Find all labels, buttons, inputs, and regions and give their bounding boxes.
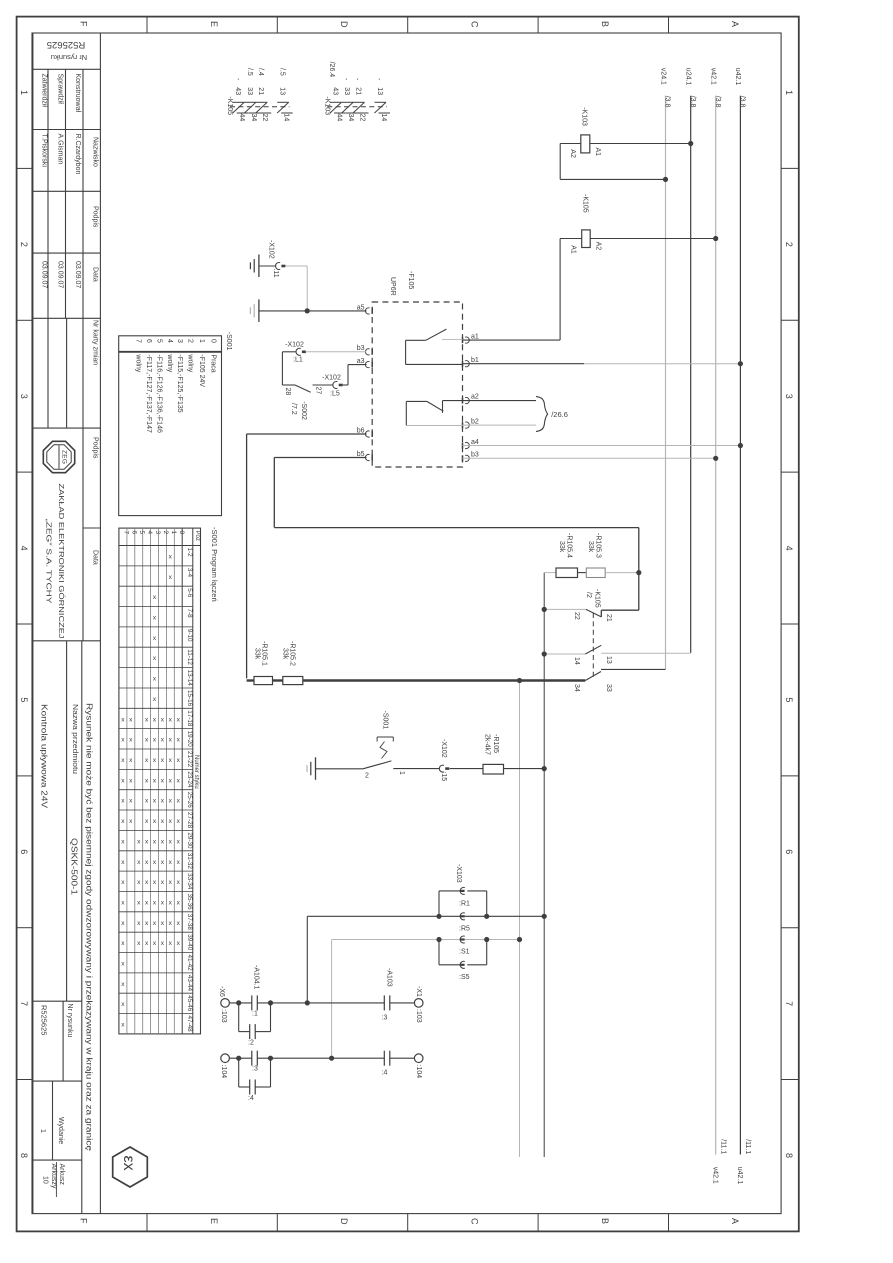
- svg-text:37-38: 37-38: [186, 914, 193, 931]
- svg-text:0: 0: [178, 531, 185, 535]
- svg-text:-X6: -X6: [218, 986, 225, 997]
- svg-text:-F116,-F126,-F136,-F146: -F116,-F126,-F136,-F146: [155, 354, 162, 433]
- svg-text:C: C: [470, 1218, 480, 1225]
- F105 internal contact a1-b1: [406, 329, 463, 364]
- capacitor A104.1:2 loop: [239, 1003, 271, 1047]
- svg-text::1: :1: [252, 1011, 258, 1018]
- svg-text:x: x: [145, 838, 149, 845]
- svg-text:-K105: -K105: [594, 589, 601, 608]
- svg-text:11-12: 11-12: [186, 649, 193, 665]
- svg-text:x: x: [169, 900, 173, 907]
- svg-text:x: x: [129, 798, 133, 805]
- svg-text:34: 34: [573, 684, 580, 692]
- svg-text:x: x: [137, 838, 141, 845]
- svg-text:B: B: [600, 21, 610, 27]
- svg-text:x: x: [169, 859, 173, 866]
- title block section Nr karty zmian: [33, 318, 101, 428]
- svg-text:43: 43: [234, 87, 241, 95]
- contact K105 13-14: [544, 645, 691, 665]
- svg-text:13-14: 13-14: [186, 670, 193, 687]
- svg-text:x: x: [121, 757, 125, 764]
- svg-text:F: F: [78, 1218, 88, 1224]
- svg-text:R525625: R525625: [47, 39, 86, 50]
- svg-text:27-28: 27-28: [186, 812, 193, 829]
- svg-text:F: F: [78, 21, 88, 27]
- connector X102 pin L5: [322, 375, 343, 398]
- svg-text:x: x: [153, 757, 157, 764]
- svg-text:3: 3: [176, 339, 183, 343]
- F105 terminal b3 right: [463, 452, 479, 462]
- svg-text:x: x: [145, 777, 149, 784]
- svg-text:4: 4: [166, 339, 173, 343]
- svg-text:x: x: [153, 920, 157, 927]
- svg-text:-S001: -S001: [225, 332, 232, 351]
- svg-text:-R105: -R105: [492, 734, 499, 753]
- selector S001 position list table: [119, 332, 232, 516]
- svg-text:x: x: [153, 655, 157, 662]
- svg-text:v42.1: v42.1: [711, 1167, 718, 1184]
- svg-text:A2: A2: [569, 149, 576, 158]
- wire row S: [332, 939, 520, 941]
- svg-text:1: 1: [398, 771, 405, 775]
- wire row 103: [229, 1002, 414, 1004]
- svg-text::3: :3: [252, 1066, 258, 1073]
- resistor R105.1 33k on heavy rail: [247, 641, 273, 685]
- svg-text:-X102: -X102: [285, 342, 304, 349]
- svg-text::R5: :R5: [459, 926, 470, 933]
- title block row role labels: [33, 69, 101, 318]
- svg-text:1: 1: [784, 90, 794, 95]
- svg-text:A1: A1: [570, 245, 577, 254]
- switch S001 manual actuator: [377, 737, 393, 759]
- frame grid numbers right: [784, 90, 794, 1158]
- svg-text:x: x: [169, 879, 173, 886]
- svg-text:x: x: [145, 940, 149, 947]
- svg-text:A: A: [730, 1218, 740, 1224]
- svg-text::2: :2: [248, 1040, 254, 1047]
- svg-text:x: x: [121, 737, 125, 744]
- svg-text:3: 3: [19, 394, 29, 399]
- svg-text:/3.8: /3.8: [739, 96, 746, 108]
- svg-text:x: x: [153, 838, 157, 845]
- svg-text:2: 2: [162, 531, 169, 535]
- wire X102:L5 to F105 a3: [343, 365, 367, 385]
- svg-text:Sprawdził: Sprawdził: [57, 74, 64, 105]
- svg-text:x: x: [121, 818, 125, 825]
- svg-text:x: x: [177, 838, 181, 845]
- svg-text:1: 1: [170, 531, 177, 535]
- svg-text:-R105.3: -R105.3: [594, 533, 601, 558]
- svg-text:5: 5: [138, 531, 145, 535]
- wire X102:L1 to F105 b3: [306, 351, 367, 353]
- F105 internal contact a2-b2 (NC): [406, 401, 462, 426]
- svg-text:x: x: [121, 838, 125, 845]
- svg-text:x: x: [153, 737, 157, 744]
- svg-text:x: x: [169, 798, 173, 805]
- svg-text:6: 6: [784, 849, 794, 854]
- junction rail / signal line B: [517, 678, 522, 683]
- title block cell Nr rysunku R525625 bottom: [33, 1001, 82, 1081]
- svg-text:x: x: [161, 940, 165, 947]
- svg-text:D: D: [339, 21, 349, 28]
- connector X102 pin 11: [259, 240, 286, 278]
- svg-text:D: D: [339, 1218, 349, 1225]
- frame grid numbers left: [19, 90, 29, 1158]
- svg-text:35-36: 35-36: [186, 894, 193, 911]
- svg-text:3: 3: [784, 394, 794, 399]
- svg-text:x: x: [161, 879, 165, 886]
- frame grid letters bottom: [78, 1218, 740, 1225]
- svg-text:x: x: [177, 777, 181, 784]
- switch S001 contact 1-2: [316, 711, 440, 780]
- svg-text:21: 21: [354, 87, 361, 95]
- frame grid row dividers right band: [781, 168, 799, 1079]
- capacitor A104.1:3: [252, 1051, 258, 1073]
- svg-text:2: 2: [19, 242, 29, 247]
- svg-text:4: 4: [19, 546, 29, 551]
- svg-text:x: x: [137, 900, 141, 907]
- svg-text:7: 7: [19, 1001, 29, 1006]
- terminal circle X6:104: [220, 1054, 229, 1078]
- wire F105 a4 to bus u42.1: [463, 445, 741, 447]
- svg-text:Zatwierdził: Zatwierdził: [40, 74, 47, 108]
- device label A104.1: [252, 965, 259, 990]
- svg-text:x: x: [177, 900, 181, 907]
- svg-text:-F105 24V: -F105 24V: [198, 354, 205, 387]
- connector X103 pin S5: [459, 961, 470, 981]
- svg-text:-F117,-F127,-F137,-F147: -F117,-F127,-F137,-F147: [145, 354, 152, 433]
- svg-text:-K105: -K105: [582, 194, 589, 213]
- frame grid column dividers bottom band: [147, 1214, 669, 1232]
- wire X102:11 to a5 net: [285, 266, 307, 311]
- svg-text:x: x: [137, 859, 141, 866]
- svg-text:x: x: [153, 900, 157, 907]
- resistor R105.3 33k: [578, 533, 639, 578]
- svg-text:3: 3: [154, 531, 161, 535]
- title block cell Wydanie 1: [33, 1081, 82, 1160]
- svg-text:/11.1: /11.1: [719, 1139, 726, 1154]
- junction 14 on signal line A: [542, 651, 547, 656]
- svg-text:x: x: [145, 818, 149, 825]
- connector X103 pin R1 with jumper: [439, 887, 487, 916]
- svg-text:28: 28: [284, 388, 291, 396]
- svg-text:x: x: [169, 920, 173, 927]
- connector X103 pin R5: [459, 913, 470, 933]
- svg-text:E: E: [209, 1218, 219, 1224]
- svg-text:x: x: [169, 737, 173, 744]
- Ex certification hexagon logo: [113, 1147, 148, 1187]
- junctions row S: [436, 937, 522, 942]
- svg-text:A: A: [730, 21, 740, 27]
- svg-text::104: :104: [415, 1065, 422, 1079]
- junction K105 A2 on v42.1: [713, 236, 718, 241]
- bus v24.1 labels top: [659, 68, 670, 108]
- svg-text:x: x: [145, 798, 149, 805]
- svg-text::11: :11: [272, 268, 279, 277]
- bus u24.1 labels top: [685, 68, 696, 108]
- svg-text:25-26: 25-26: [186, 792, 193, 809]
- svg-text:34: 34: [250, 114, 257, 122]
- wire F105 b3 to bus v42.1: [463, 457, 716, 459]
- F105 terminal a3: [357, 358, 372, 368]
- svg-text:x: x: [121, 859, 125, 866]
- wire F105 b6 to R105.1 rail: [247, 434, 367, 678]
- svg-text:x: x: [145, 757, 149, 764]
- svg-text::R1: :R1: [459, 901, 470, 908]
- svg-text:-K103: -K103: [323, 96, 330, 115]
- title block row names / Nazwisko: [33, 134, 101, 192]
- svg-text::L5: :L5: [330, 391, 340, 398]
- svg-text:B: B: [600, 1218, 610, 1224]
- svg-text:x: x: [153, 940, 157, 947]
- svg-text:33-34: 33-34: [186, 873, 193, 890]
- connector X102 pin L1: [285, 342, 306, 364]
- svg-text:x: x: [153, 615, 157, 622]
- svg-text:03.09.07: 03.09.07: [40, 261, 47, 288]
- svg-text:6: 6: [130, 531, 137, 535]
- svg-text:22: 22: [573, 612, 580, 620]
- junction a4 on u42.1: [738, 443, 743, 448]
- svg-text:x: x: [161, 716, 165, 723]
- svg-text:/.4: /.4: [257, 68, 264, 76]
- capacitor A104.1:1: [252, 995, 258, 1017]
- F105 terminal b6: [357, 427, 372, 437]
- svg-text:wolny: wolny: [135, 353, 142, 372]
- junction b3 on v42.1: [713, 456, 718, 461]
- svg-text:x: x: [153, 879, 157, 886]
- svg-text:/11.1: /11.1: [744, 1139, 751, 1154]
- svg-text:QSKK-500-1: QSKK-500-1: [70, 838, 79, 895]
- svg-text:Rysunek nie może być bez pisem: Rysunek nie może być bez pisemnej zgody …: [85, 703, 94, 1152]
- svg-text:-X102: -X102: [322, 375, 341, 382]
- svg-text:x: x: [177, 879, 181, 886]
- svg-text:x: x: [153, 635, 157, 642]
- svg-text:45-46: 45-46: [186, 995, 193, 1012]
- svg-text:-A104.1: -A104.1: [252, 965, 259, 990]
- svg-text:5: 5: [19, 697, 29, 702]
- svg-text:33k: 33k: [558, 541, 565, 553]
- svg-text:x: x: [161, 757, 165, 764]
- svg-text:Nr karty zmian: Nr karty zmian: [92, 320, 99, 365]
- svg-text:x: x: [129, 757, 133, 764]
- svg-text:x: x: [121, 940, 125, 947]
- svg-text:a1: a1: [471, 334, 479, 341]
- F105 terminal a1: [463, 334, 479, 344]
- junction K103 A2 on v24.1: [663, 177, 668, 182]
- svg-text:A2: A2: [595, 242, 602, 251]
- svg-text:ZEG: ZEG: [61, 450, 68, 464]
- frame grid letters top: [78, 21, 740, 28]
- svg-text:x: x: [121, 900, 125, 907]
- svg-text:33: 33: [605, 684, 612, 692]
- F105 terminal a5: [357, 304, 372, 314]
- capacitor A103:4: [382, 1051, 390, 1077]
- svg-text:R525625: R525625: [40, 1005, 49, 1035]
- svg-text:x: x: [169, 940, 173, 947]
- F105 terminal a2: [463, 393, 479, 403]
- svg-text:2: 2: [365, 773, 369, 780]
- ground symbol at S001: [307, 757, 316, 780]
- svg-text:x: x: [161, 798, 165, 805]
- junctions row 103: [236, 1000, 310, 1005]
- svg-text:x: x: [161, 777, 165, 784]
- wire row R down to terminal row 103: [306, 916, 308, 1003]
- resistor R105.4 33k: [544, 533, 577, 578]
- svg-text:x: x: [177, 716, 181, 723]
- svg-text:7: 7: [135, 339, 142, 343]
- svg-text:/3.8: /3.8: [689, 96, 696, 108]
- svg-text:3-4: 3-4: [186, 568, 193, 578]
- svg-text:Numer styku: Numer styku: [193, 755, 199, 789]
- contact K105 21-22 (/2): [544, 589, 612, 622]
- svg-text:31-32: 31-32: [186, 853, 193, 870]
- title block outline: [33, 33, 101, 1214]
- svg-text:wolny: wolny: [187, 353, 194, 372]
- sheet frame inner border: [32, 33, 781, 1214]
- svg-text:1-2: 1-2: [186, 548, 193, 558]
- svg-text:b1: b1: [471, 357, 479, 364]
- svg-text:/.5: /.5: [279, 68, 286, 76]
- junctions row 104: [236, 1056, 334, 1061]
- F105 terminal b2: [463, 419, 479, 429]
- svg-text:/7.2: /7.2: [290, 403, 297, 415]
- svg-text:x: x: [121, 920, 125, 927]
- svg-text:x: x: [121, 1001, 125, 1008]
- svg-text:A.Gisman: A.Gisman: [57, 134, 64, 165]
- svg-text:x: x: [153, 696, 157, 703]
- svg-text::S5: :S5: [459, 974, 470, 981]
- svg-text:x: x: [153, 716, 157, 723]
- svg-text:Poz: Poz: [194, 531, 200, 541]
- logo ZEG octagon: [43, 441, 74, 472]
- wire ground to F105 a5: [259, 310, 367, 312]
- F105 terminal b1: [463, 357, 479, 367]
- wire F105 b2 to sheet 26.6: [463, 424, 537, 426]
- svg-text:x: x: [169, 574, 173, 581]
- svg-text:x: x: [161, 859, 165, 866]
- svg-text:a4: a4: [471, 439, 479, 446]
- title block row Podpis: [33, 206, 101, 253]
- heavy rail wire to contact 34: [303, 679, 586, 681]
- svg-text:x: x: [121, 798, 125, 805]
- bus v42.1 labels top: [710, 68, 721, 108]
- F105 terminal b3 left: [357, 345, 372, 355]
- wire F105 a2 to sheet 26.6: [463, 400, 537, 402]
- junction K103 A1 on u24.1: [688, 141, 693, 146]
- svg-text:x: x: [129, 818, 133, 825]
- svg-text:x: x: [121, 1022, 125, 1029]
- svg-text:39-40: 39-40: [186, 934, 193, 951]
- wire row S down to terminal row 104: [331, 940, 333, 1059]
- selector S001 program table: [119, 527, 219, 1034]
- ground symbol at a5: [250, 299, 259, 322]
- svg-text:x: x: [161, 900, 165, 907]
- F105 terminal a4: [463, 439, 479, 449]
- svg-text:29-30: 29-30: [186, 832, 193, 849]
- svg-text:b3: b3: [357, 345, 365, 352]
- svg-text:-R105.4: -R105.4: [565, 533, 572, 558]
- svg-text:x: x: [129, 737, 133, 744]
- svg-text:33k: 33k: [254, 648, 261, 660]
- svg-text:x: x: [145, 920, 149, 927]
- svg-text:u42.1: u42.1: [736, 1167, 743, 1185]
- svg-text:1: 1: [19, 90, 29, 95]
- svg-text:21-22: 21-22: [186, 751, 193, 768]
- device F105 UP6R dashed outline: [372, 271, 462, 467]
- svg-text:a5: a5: [357, 304, 365, 311]
- svg-text:8: 8: [19, 1153, 29, 1158]
- connector X103 pin S1 with jumper: [439, 936, 487, 965]
- svg-text:x: x: [145, 716, 149, 723]
- svg-text:-: -: [353, 78, 360, 81]
- svg-text:13: 13: [279, 87, 286, 95]
- wire K105 A2 to bus v42.1: [590, 238, 716, 240]
- bus u42.1 labels bottom /11.1: [736, 1139, 751, 1184]
- svg-text:-A103: -A103: [385, 968, 392, 987]
- svg-text:-: -: [342, 78, 349, 81]
- capacitor A104.1:4 loop: [239, 1058, 271, 1102]
- svg-text::4: :4: [382, 1070, 388, 1077]
- wire row R (to X102 net): [307, 915, 544, 917]
- relay coil K105: [570, 194, 602, 254]
- title block cell Arkusz/Arkuszy 10: [33, 1160, 82, 1197]
- svg-text:x: x: [137, 940, 141, 947]
- svg-text:2k-4k7: 2k-4k7: [483, 734, 490, 755]
- svg-text:/.5: /.5: [246, 68, 253, 76]
- title block row Data 03.09.07: [33, 261, 101, 318]
- svg-text:R.Czardybon: R.Czardybon: [74, 134, 81, 175]
- svg-text:x: x: [153, 777, 157, 784]
- svg-text:2: 2: [187, 339, 194, 343]
- title block cell Nr rysunku / R525625 (rotated 180): [33, 39, 101, 69]
- svg-text:x: x: [169, 716, 173, 723]
- svg-text:b3: b3: [471, 452, 479, 459]
- svg-text:-: -: [234, 78, 241, 81]
- svg-text:8: 8: [784, 1153, 794, 1158]
- svg-text:x: x: [121, 716, 125, 723]
- svg-text:x: x: [129, 777, 133, 784]
- junction R105.3 on b5 wire: [636, 570, 641, 575]
- svg-text:Konstruował: Konstruował: [74, 74, 81, 113]
- bus v24.1 vertical line: [665, 96, 667, 670]
- relay coil K103: [569, 107, 601, 158]
- svg-text:44: 44: [238, 114, 245, 122]
- svg-text:T.Piskorski: T.Piskorski: [40, 134, 47, 168]
- bus u42.1 labels top: [734, 68, 745, 108]
- svg-text:x: x: [121, 981, 125, 988]
- svg-text:5: 5: [155, 339, 162, 343]
- title block Nazwa przedmiotu / QSKK-500-1 / Kontrola uplywowa 24V: [40, 641, 82, 1214]
- terminal circle X1:104: [414, 1054, 423, 1078]
- svg-text:5: 5: [784, 697, 794, 702]
- svg-text:x: x: [121, 879, 125, 886]
- svg-text:ZAKŁAD ELEKTRONIKI GÓRNICZEJ: ZAKŁAD ELEKTRONIKI GÓRNICZEJ: [57, 484, 66, 639]
- svg-text:7: 7: [784, 1001, 794, 1006]
- svg-text:27: 27: [314, 387, 321, 395]
- contact mirror group K103: [323, 62, 390, 122]
- svg-text:-F115,-F125,-F135: -F115,-F125,-F135: [176, 354, 183, 412]
- svg-text:x: x: [145, 859, 149, 866]
- svg-text:a3: a3: [357, 358, 365, 365]
- signal line A (x=544.2): [543, 573, 545, 1157]
- svg-text:x: x: [177, 920, 181, 927]
- svg-text:-K103: -K103: [581, 107, 588, 126]
- svg-text:-X1: -X1: [415, 986, 422, 997]
- svg-text:-S002: -S002: [300, 401, 307, 420]
- svg-text:E: E: [209, 21, 219, 27]
- connector group X103 label: [455, 864, 462, 883]
- svg-text:x: x: [177, 859, 181, 866]
